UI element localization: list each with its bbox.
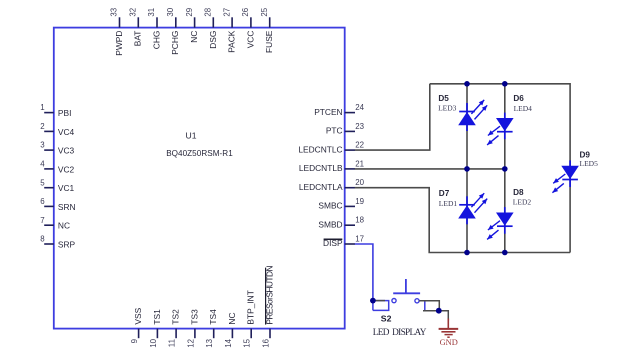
svg-text:LED5: LED5	[580, 159, 599, 168]
pin 30 PCHG (top)	[166, 7, 180, 55]
svg-text:NC: NC	[58, 221, 70, 231]
pin 16 PRESorSHUTDN (bottom)	[261, 266, 274, 348]
junction mid rail / col2	[502, 166, 508, 172]
svg-text:24: 24	[355, 103, 364, 112]
svg-text:31: 31	[147, 8, 156, 17]
svg-text:PCHG: PCHG	[170, 31, 180, 55]
svg-text:VC4: VC4	[58, 127, 75, 137]
wire right contact to gnd path	[419, 301, 439, 311]
svg-text:23: 23	[355, 122, 364, 131]
pin 21 LEDCNTLB (right)	[299, 159, 364, 173]
svg-text:13: 13	[205, 338, 214, 347]
svg-text:TS4: TS4	[208, 309, 218, 325]
svg-text:PTCEN: PTCEN	[314, 107, 342, 117]
wire net LEDCNTLA from pin 20 down to bottom rail	[355, 188, 570, 253]
switch S2 right contact circle	[415, 299, 419, 303]
svg-text:PTC: PTC	[326, 126, 343, 136]
svg-text:NC: NC	[189, 31, 199, 43]
svg-text:LED4: LED4	[514, 104, 533, 113]
svg-text:NC: NC	[227, 312, 237, 324]
pin 7 NC (left)	[40, 216, 70, 231]
svg-text:9: 9	[130, 338, 139, 343]
pin 26 VCC (top)	[241, 7, 255, 48]
LED D9 (pointing down, arrows SW)	[552, 160, 579, 192]
svg-text:TS3: TS3	[189, 309, 199, 325]
svg-text:14: 14	[224, 338, 233, 347]
pin 25 FUSE (top)	[260, 7, 274, 53]
pin 28 DSG (top)	[204, 7, 218, 49]
pin 10 TS1 (bottom)	[149, 309, 162, 348]
svg-text:VSS: VSS	[133, 307, 143, 324]
pin 13 TS4 (bottom)	[205, 309, 218, 348]
svg-text:12: 12	[186, 339, 195, 348]
svg-text:8: 8	[40, 235, 45, 244]
svg-text:30: 30	[166, 7, 175, 16]
pin 23 PTC (right)	[326, 122, 365, 136]
svg-text:BQ40Z50RSM-R1: BQ40Z50RSM-R1	[166, 149, 233, 158]
svg-text:D8: D8	[513, 188, 524, 197]
svg-text:LEDCNTLA: LEDCNTLA	[299, 182, 343, 192]
svg-text:LEDCNTLC: LEDCNTLC	[298, 144, 342, 154]
svg-text:27: 27	[222, 8, 231, 17]
pin 2 VC4 (left)	[40, 122, 74, 137]
svg-text:D6: D6	[513, 94, 524, 103]
svg-text:PWPD: PWPD	[114, 31, 124, 56]
svg-text:17: 17	[355, 234, 364, 243]
svg-text:LED2: LED2	[513, 198, 532, 207]
svg-text:LEDCNTLB: LEDCNTLB	[299, 163, 343, 173]
pin 24 PTCEN (right)	[314, 103, 364, 117]
svg-text:TS2: TS2	[171, 309, 181, 325]
svg-text:S2: S2	[381, 314, 392, 324]
wire net DISP from pin 17 down to switch S2	[355, 244, 373, 301]
svg-text:CHG: CHG	[151, 31, 161, 50]
junction bottom rail / col2	[502, 250, 508, 256]
wire LED column 2 (D6/D8)	[504, 84, 506, 253]
svg-text:16: 16	[261, 338, 270, 347]
svg-text:D5: D5	[438, 94, 449, 103]
pin 32 BAT (top)	[129, 8, 143, 46]
svg-text:LED1: LED1	[439, 199, 458, 208]
pin 12 TS3 (bottom)	[186, 309, 199, 348]
svg-text:10: 10	[149, 338, 158, 347]
pin 33 PWPD (top)	[110, 7, 124, 56]
svg-text:DSG: DSG	[208, 31, 218, 49]
svg-text:6: 6	[40, 197, 45, 206]
pin 18 SMBD (right)	[318, 216, 364, 230]
svg-text:VC2: VC2	[58, 164, 75, 174]
pin 17 DISP (right)	[323, 234, 364, 248]
svg-text:VC3: VC3	[58, 146, 75, 156]
LED D5 (pointing up, arrows NE)	[458, 100, 487, 131]
svg-text:TS1: TS1	[152, 309, 162, 325]
junction top rail / col1	[464, 81, 470, 87]
wire LED column 1 (D5/D7)	[466, 84, 468, 253]
junction bottom rail / col1	[464, 250, 470, 256]
junction at switch left	[370, 298, 376, 304]
wire top rail to D9 column	[430, 84, 570, 253]
svg-text:21: 21	[355, 159, 364, 168]
svg-text:SMBC: SMBC	[318, 201, 342, 211]
svg-text:U1: U1	[186, 131, 197, 141]
svg-text:2: 2	[40, 122, 44, 131]
svg-text:VC1: VC1	[58, 183, 75, 193]
svg-text:26: 26	[241, 7, 250, 16]
svg-text:SMBD: SMBD	[318, 219, 342, 229]
svg-text:D7: D7	[439, 189, 450, 198]
switch S2 left terminal loop	[373, 301, 389, 311]
pin 14 NC (bottom)	[224, 312, 237, 347]
svg-text:20: 20	[355, 178, 364, 187]
pin 4 VC2 (left)	[40, 160, 74, 175]
svg-text:29: 29	[185, 7, 194, 16]
junction top rail / col2	[502, 81, 508, 87]
svg-text:BAT: BAT	[133, 31, 143, 47]
svg-text:5: 5	[40, 178, 45, 187]
svg-text:15: 15	[243, 338, 252, 347]
wire dark overlay left terminal	[373, 300, 385, 302]
svg-text:PACK: PACK	[227, 30, 237, 53]
svg-text:PBI: PBI	[58, 108, 72, 118]
svg-text:11: 11	[168, 339, 177, 347]
svg-text:7: 7	[40, 216, 44, 225]
svg-text:22: 22	[355, 141, 364, 150]
pin 5 VC1 (left)	[40, 178, 74, 193]
LED D7 (pointing up, arrows NE)	[458, 193, 487, 224]
op-amp/IC U1 body BQ40Z50RSM-R1	[54, 28, 345, 329]
pin 11 TS2 (bottom)	[168, 309, 181, 347]
svg-text:VCC: VCC	[245, 31, 255, 49]
pin 9 VSS (bottom)	[130, 307, 143, 343]
svg-text:SRP: SRP	[58, 239, 76, 249]
pin 15 BTP_INT (bottom)	[243, 290, 256, 348]
pin 3 VC3 (left)	[40, 141, 74, 156]
LED D8 (pointing down, arrows SW)	[487, 207, 513, 239]
svg-text:LED DISPLAY: LED DISPLAY	[373, 328, 427, 338]
wire net LEDCNTLC from pin 22 up to top rail	[355, 84, 430, 150]
pin 27 PACK (top)	[222, 8, 236, 53]
svg-text:19: 19	[355, 197, 364, 206]
pin 19 SMBC (right)	[318, 197, 364, 211]
svg-text:4: 4	[40, 160, 45, 169]
svg-text:3: 3	[40, 141, 45, 150]
switch S2 actuator bar and stem	[393, 279, 420, 293]
svg-text:33: 33	[110, 7, 119, 16]
switch S2 right terminal loop	[424, 301, 426, 311]
svg-text:SRN: SRN	[58, 202, 76, 212]
pin 22 LEDCNTLC (right)	[298, 141, 364, 155]
svg-text:18: 18	[355, 216, 364, 225]
junction at switch right / gnd	[436, 308, 442, 314]
svg-text:LED3: LED3	[438, 104, 457, 113]
svg-text:32: 32	[129, 8, 138, 17]
pin 31 CHG (top)	[147, 8, 161, 49]
ground GND	[439, 319, 459, 338]
svg-text:28: 28	[204, 7, 213, 16]
pin 1 PBI (left)	[40, 103, 71, 118]
wire net LEDCNTLB middle rail from pin 21	[355, 168, 505, 170]
svg-text:1: 1	[40, 103, 44, 112]
junction mid rail / col1	[464, 166, 470, 172]
pin 29 NC (top)	[185, 7, 199, 42]
pin 6 SRN (left)	[40, 197, 75, 212]
svg-text:FUSE: FUSE	[264, 30, 274, 53]
svg-text:BTP_INT: BTP_INT	[246, 290, 256, 324]
LED D6 (pointing down, arrows SW)	[487, 113, 513, 145]
pin 20 LEDCNTLA (right)	[299, 178, 365, 192]
svg-text:25: 25	[260, 7, 269, 16]
pin 8 SRP (left)	[40, 235, 75, 250]
switch S2 left contact circle	[392, 299, 396, 303]
svg-text:GND: GND	[440, 338, 458, 347]
